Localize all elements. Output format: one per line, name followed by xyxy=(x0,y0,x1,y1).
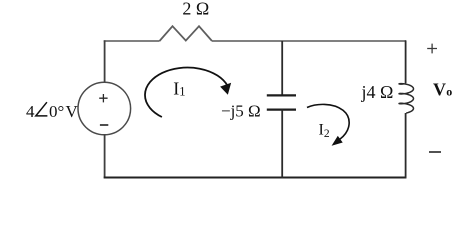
voltage source V1 circle xyxy=(78,82,131,135)
output minus sign xyxy=(429,151,441,153)
voltage source minus sign xyxy=(100,124,108,126)
mesh current I1 arrowhead xyxy=(221,84,230,94)
resistor R 2ohm zigzag xyxy=(160,26,213,41)
mesh current I2 arc xyxy=(307,104,349,139)
angle symbol of source label xyxy=(36,102,48,116)
wire bottom horizontal xyxy=(104,177,407,179)
capacitor C top plate xyxy=(267,94,296,96)
wire left branch lower xyxy=(104,135,106,179)
mesh current I1 arc xyxy=(145,68,227,117)
wire middle branch lower xyxy=(281,110,283,179)
voltage source plus sign xyxy=(99,94,107,102)
wire left branch upper xyxy=(104,40,106,82)
svg-text:4: 4 xyxy=(26,102,35,121)
capacitor C bottom plate xyxy=(267,108,296,110)
svg-text:V: V xyxy=(66,102,79,121)
wire top-right horizontal segment xyxy=(212,40,406,42)
svg-text:2 Ω: 2 Ω xyxy=(182,0,209,18)
svg-text:o: o xyxy=(446,85,452,99)
svg-text:0°: 0° xyxy=(49,102,64,121)
svg-text:I2: I2 xyxy=(319,121,330,140)
wire right branch upper xyxy=(405,40,407,83)
inductor L j4ohm coil xyxy=(399,84,413,114)
wire right branch lower xyxy=(405,113,407,178)
svg-text:j4 Ω: j4 Ω xyxy=(361,82,394,102)
output plus sign xyxy=(427,44,437,54)
wire top-left horizontal segment xyxy=(104,40,160,42)
mesh current I2 arrowhead xyxy=(333,137,342,145)
svg-text:I1: I1 xyxy=(173,79,185,99)
svg-text:V: V xyxy=(433,80,446,100)
wire middle branch upper xyxy=(281,41,283,95)
svg-text:−j5 Ω: −j5 Ω xyxy=(221,102,261,121)
